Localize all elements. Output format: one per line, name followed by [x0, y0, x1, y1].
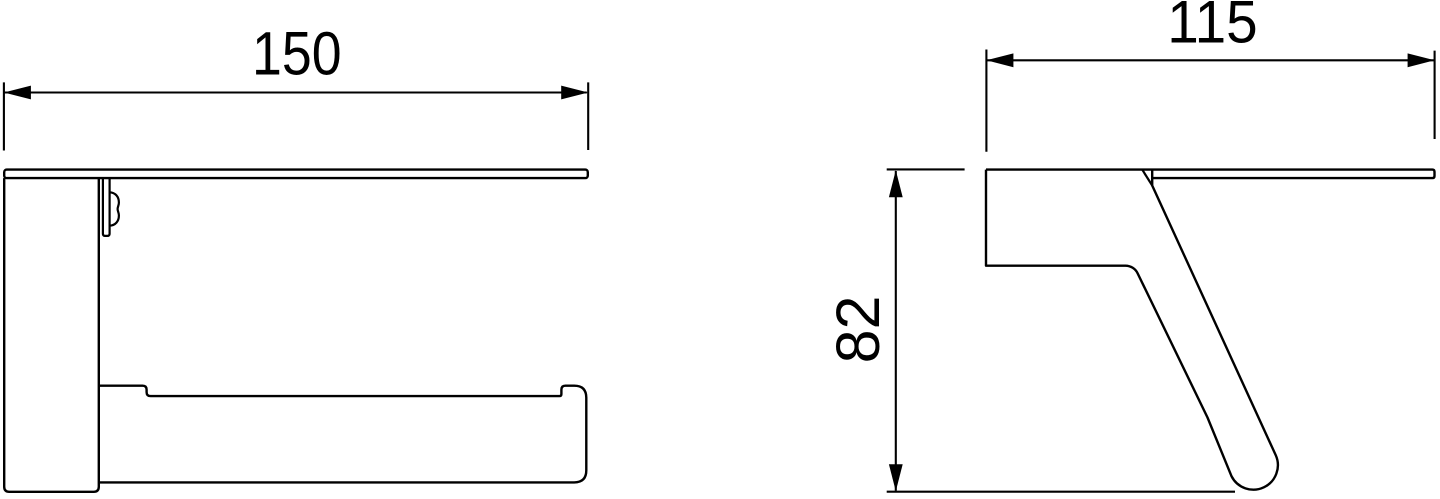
dimension 150: left extension line: [3, 82, 5, 150]
dimension 115: dimension line: [987, 59, 1434, 61]
dimension 115: right extension line: [1434, 51, 1436, 139]
dimension 82: top extension line: [887, 168, 965, 170]
front view: shelf top plate: [4, 170, 588, 179]
side view: arm root edge: [1142, 170, 1152, 186]
svg-text:115: 115: [1167, 0, 1257, 56]
front view: wall mounting plate: [4, 178, 99, 492]
side view: shelf profile: [986, 170, 1435, 179]
dimension 82: top arrowhead: [889, 170, 903, 197]
front view: hinge bracket: [103, 178, 110, 236]
dimension 115: right arrowhead: [1408, 53, 1435, 67]
side view: mount block and bent arm outline: [986, 170, 1278, 490]
front view: hinge screw knob profile: [110, 192, 119, 225]
front view: paper roll holder arm: [99, 386, 587, 483]
svg-text:150: 150: [252, 21, 342, 89]
dimension 115: left arrowhead: [986, 53, 1013, 67]
dimension 150: right extension line: [587, 82, 589, 150]
dimension 82: bottom arrowhead: [889, 464, 903, 491]
dimension 82: bottom extension line: [887, 491, 1235, 493]
dimension 150: dimension line: [5, 91, 587, 93]
dimension 150: left arrowhead: [4, 86, 31, 100]
dimension 82: dimension line: [895, 171, 897, 491]
svg-text:82: 82: [824, 296, 892, 364]
dimension 115: left extension line: [985, 50, 987, 152]
dimension 150: right arrowhead: [561, 86, 588, 100]
